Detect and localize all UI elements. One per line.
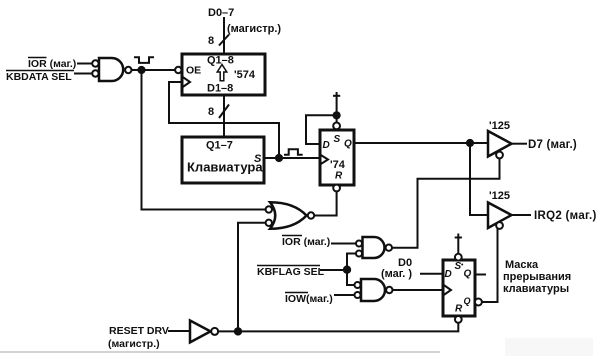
label IOR (mag.) middle [282,236,330,249]
svg-text:RESET DRV: RESET DRV [109,325,169,337]
NOR gate G2 (clear) [266,202,315,229]
svg-text:R: R [455,304,463,315]
wire D0 to U3 D input [420,273,443,275]
wire node E up to G3 input [347,254,356,271]
svg-text:D1–8: D1–8 [207,83,233,95]
svg-text:прерывания: прерывания [503,271,571,283]
svg-text:'125: '125 [489,190,510,202]
wire node C to D input of U2 [306,115,337,144]
svg-text:(маг. ): (маг. ) [381,268,412,280]
svg-text:S: S [334,134,341,145]
node D junction on Q wire [466,139,474,147]
label D0-7 (magistr.) [208,7,281,35]
svg-text:S: S [254,153,262,165]
node F junction on reset line [234,327,242,335]
buffer U4 '125 (D7) [488,120,512,158]
positive pulse symbol [284,149,303,155]
flip-flop U2 '74 box [320,123,354,192]
svg-text:D: D [445,269,452,280]
node A junction below G1 output [137,66,145,74]
svg-text:IRQ2 (маг.): IRQ2 (маг.) [534,210,597,222]
wire G4 output to U3 clock [393,289,444,291]
wire U3 Qbar up to buffer U5 enable [482,229,498,303]
wire U5 output to IRQ2 label [512,214,532,216]
bus slash 8 (top) [208,35,229,48]
svg-text:'125: '125 [489,120,510,132]
bus slash 8 (lower) [208,105,229,119]
wire IOW to gate G4 [334,294,355,296]
svg-text:R: R [335,171,343,182]
wire keyboard S to U2 clock [264,157,320,159]
label IOW (mag.) [285,293,333,306]
wire node D down to buffer U5 input [470,143,488,215]
svg-text:Q: Q [344,139,352,150]
svg-text:(магистр.): (магистр.) [108,338,160,350]
svg-text:Клавиатура: Клавиатура [187,160,263,175]
svg-text:(магистр.): (магистр.) [227,23,281,35]
svg-text:IOR (маг.): IOR (маг.) [282,236,330,248]
svg-text:OE: OE [186,65,201,77]
label RESET DRV (magistr.) [108,325,169,350]
wire G2 output to U2 R [314,192,336,216]
svg-text:Q1–7: Q1–7 [206,140,233,152]
negative pulse symbol [134,57,154,63]
label IOR (mag.) top-left [28,58,76,71]
NAND gate G4 (IOW & KBFLAG) [355,279,393,301]
NAND gate G1 (read strobe) [92,58,131,81]
wire G5 output to U3 R [217,323,458,332]
keyboard box [182,137,264,183]
svg-text:Q: Q [464,296,471,306]
svg-text:D7 (маг.): D7 (маг.) [528,139,577,151]
svg-text:Маска: Маска [505,259,539,271]
svg-text:KBDATA SEL: KBDATA SEL [6,71,72,83]
wire G1 output to OE of U1 [132,69,175,71]
svg-text:Q: Q [464,269,472,280]
bus U1 D1-8 down to keyboard [223,95,225,137]
svg-text:8: 8 [208,35,214,47]
wire node E down to G4 input [347,270,355,285]
buffer U5 '125 (IRQ2) [488,190,512,229]
svg-text:Q1–8: Q1–8 [207,55,234,67]
svg-text:D: D [323,140,330,151]
wire U3 Q stub [475,274,486,276]
wire + down to S bubble [336,100,338,123]
svg-text:KBFLAG SEL: KBFLAG SEL [257,266,325,278]
svg-text:8: 8 [208,106,214,118]
svg-text:S: S [455,261,462,272]
wire reset line to NOR input [238,223,266,331]
node E junction [343,266,351,274]
inverter G5 [190,321,218,343]
node C junction (tie D high) [333,111,341,119]
wire U4 output to D7 label [512,143,528,145]
wire RESET to inverter G5 [168,330,190,332]
flip-flop U3 '74 mask box [443,254,482,323]
bus U1 Q1-8 up to D0-7 [223,17,225,54]
power + for U2 S input [333,92,340,100]
svg-text:IOW(маг.): IOW(маг.) [285,293,333,305]
wire U2 Q to buffer U4 [354,142,488,144]
wire keyboard strobe to U1 clock [169,82,279,158]
wire node A down to NOR input [142,70,266,210]
wire IOR to gate G3 [331,243,356,245]
svg-text:IOR (маг.): IOR (маг.) [28,58,76,70]
label D0 (mag.) [381,257,412,280]
wire IOR to gate G1 [77,63,92,65]
svg-text:D0–7: D0–7 [208,7,234,19]
NAND gate G3 (IOR & KBFLAG) [356,237,392,258]
svg-text:'74: '74 [330,159,346,171]
wire KBFLAG to node E [320,269,347,271]
svg-text:'574: '574 [234,69,256,81]
wire KBDATA to gate G1 [74,73,92,75]
label KBFLAG SEL [257,266,325,279]
register U1 '574 box [175,54,265,95]
label Maska preryvaniya klaviatury [503,259,571,295]
label KBDATA SEL [6,71,74,84]
node B junction on strobe wire [275,154,283,162]
wire + down to U3 S bubble [457,242,459,255]
scan artifact gray rule bottom [0,338,593,356]
wire G3 output up to buffer U4 enable [392,157,500,248]
svg-text:клавиатуры: клавиатуры [503,283,569,295]
power + for U3 S input [455,234,462,242]
